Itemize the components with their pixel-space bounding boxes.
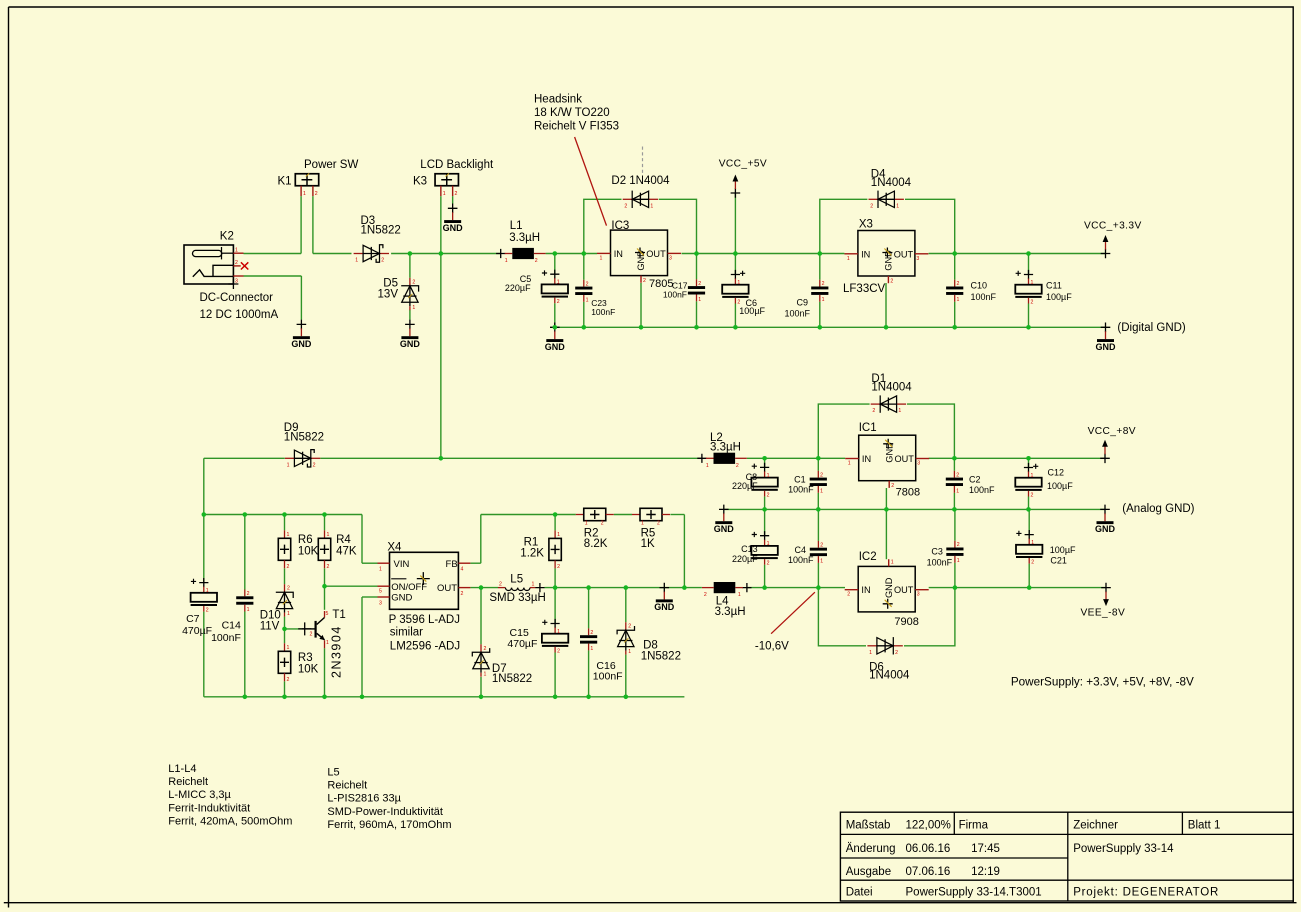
- label C14: [222, 620, 241, 632]
- wire C21 column: [1028, 509, 1030, 587]
- svg-text:OUT: OUT: [894, 585, 914, 595]
- svg-text:IC3: IC3: [611, 220, 629, 232]
- svg-text:2: 2: [643, 278, 646, 284]
- svg-text:Ferrit, 960mA, 170mOhm: Ferrit, 960mA, 170mOhm: [327, 819, 451, 831]
- no-connect X on K2 pin2: [241, 262, 248, 269]
- svg-text:D8: D8: [643, 640, 658, 652]
- svg-text:2: 2: [956, 472, 959, 478]
- Headsink annotation text: [534, 94, 619, 133]
- svg-text:2: 2: [820, 542, 823, 548]
- label D4: [871, 169, 886, 181]
- notes L5: [327, 767, 451, 831]
- wire C1 column: [817, 458, 819, 509]
- label R6: [298, 534, 313, 546]
- label L2 value: [710, 442, 741, 454]
- capacitor C8 220uF: [751, 463, 777, 499]
- label C12 value: [1047, 481, 1073, 491]
- svg-text:(Analog GND): (Analog GND): [1122, 503, 1194, 515]
- svg-text:2: 2: [313, 462, 316, 468]
- svg-text:Ferrit-Induktivität: Ferrit-Induktivität: [168, 802, 250, 814]
- title block row3 text: [846, 866, 1000, 878]
- wire R1 column: [554, 515, 556, 588]
- svg-text:2: 2: [484, 646, 487, 652]
- svg-text:GND: GND: [291, 339, 312, 349]
- svg-text:1N4004: 1N4004: [871, 382, 912, 394]
- svg-text:470µF: 470µF: [182, 625, 212, 637]
- wire R6 D10 R3 column: [284, 515, 286, 697]
- svg-text:1: 1: [484, 671, 487, 677]
- svg-text:3: 3: [235, 279, 238, 285]
- junction dots switcher top rail: [202, 512, 558, 517]
- label D9 value: [284, 431, 324, 443]
- wire L2 to IC1 IN: [747, 457, 845, 459]
- svg-text:47K: 47K: [336, 546, 357, 558]
- svg-text:GND: GND: [654, 602, 675, 612]
- svg-text:1: 1: [287, 645, 290, 651]
- svg-text:C13: C13: [741, 544, 758, 554]
- label C9: [796, 298, 808, 308]
- label C11 value: [1046, 292, 1072, 302]
- label D4 value: [871, 177, 912, 189]
- svg-text:IC2: IC2: [859, 551, 877, 563]
- wire C16 column: [588, 588, 590, 697]
- svg-text:1: 1: [956, 488, 959, 494]
- svg-text:1: 1: [820, 488, 823, 494]
- svg-text:SMD 33µH: SMD 33µH: [489, 592, 545, 604]
- svg-text:Reichelt: Reichelt: [168, 776, 208, 788]
- ground under K2 pin3: [291, 320, 312, 349]
- label R1 value: [520, 547, 544, 559]
- wire T1 emitter down: [324, 648, 326, 697]
- label C7: [186, 613, 200, 625]
- label C16 value: [593, 671, 623, 683]
- svg-text:100nF: 100nF: [211, 632, 241, 644]
- svg-text:Blatt 1: Blatt 1: [1188, 819, 1221, 831]
- title block row4 text: [846, 887, 1219, 899]
- svg-text:GND: GND: [545, 342, 566, 352]
- ground left end of analog bus: [714, 505, 735, 534]
- wire D8 column: [625, 588, 627, 697]
- label C8: [746, 472, 758, 482]
- label D3 value 1N5822: [361, 225, 401, 237]
- label R1: [524, 537, 539, 549]
- label R4: [336, 534, 351, 546]
- svg-text:2: 2: [461, 591, 464, 597]
- svg-text:C4: C4: [794, 545, 806, 555]
- svg-text:LF33CV: LF33CV: [843, 283, 886, 295]
- switcher bottom rail: [204, 696, 685, 698]
- notes L1-L4: [168, 763, 292, 827]
- svg-text:1: 1: [891, 559, 894, 565]
- svg-text:C14: C14: [222, 620, 241, 632]
- svg-text:SMD-Power-Induktivität: SMD-Power-Induktivität: [327, 806, 443, 818]
- diode D2 1N4004: [623, 191, 658, 210]
- svg-text:17:45: 17:45: [971, 843, 1000, 855]
- capacitor C1 100nF: [810, 471, 827, 495]
- capacitor C23 100nF: [575, 280, 592, 304]
- label C6 value: [739, 306, 765, 316]
- svg-text:Power SW: Power SW: [304, 159, 358, 171]
- ground under K3 pin2: [443, 204, 464, 233]
- label K3: [413, 175, 427, 187]
- label R5: [641, 528, 656, 540]
- transistor T1 2N3904: [298, 611, 329, 648]
- capacitor C2 100nF: [946, 471, 963, 495]
- svg-text:2N3904: 2N3904: [330, 625, 344, 678]
- junction dots output row: [479, 585, 1032, 590]
- svg-text:(Digital GND): (Digital GND): [1117, 322, 1186, 334]
- svg-text:100µF: 100µF: [1046, 292, 1072, 302]
- svg-text:2: 2: [704, 592, 707, 598]
- wire C7 column: [203, 515, 205, 697]
- connector K2 DC jack: [184, 245, 244, 289]
- svg-text:100nF: 100nF: [788, 485, 814, 495]
- svg-text:1: 1: [355, 258, 358, 264]
- svg-text:2: 2: [557, 649, 560, 655]
- svg-text:1: 1: [706, 463, 709, 469]
- label R5 value: [641, 538, 655, 550]
- svg-text:R6: R6: [298, 534, 313, 546]
- svg-text:10K: 10K: [298, 546, 319, 558]
- svg-text:2: 2: [315, 191, 318, 197]
- svg-text:5: 5: [326, 611, 329, 617]
- svg-text:Maßstab: Maßstab: [846, 819, 891, 831]
- schottky D8 1N5822: [617, 622, 634, 655]
- svg-text:3.3µH: 3.3µH: [715, 606, 746, 618]
- svg-text:VCC_+3.3V: VCC_+3.3V: [1084, 221, 1142, 232]
- label C4: [794, 545, 806, 555]
- svg-text:L5: L5: [327, 767, 339, 779]
- wire IC3 GND pin to bus: [640, 283, 642, 327]
- svg-text:1: 1: [412, 305, 415, 311]
- junction dots analog gnd bus: [762, 507, 1030, 512]
- svg-text:1: 1: [641, 521, 644, 527]
- label VCC_+8V: [1088, 426, 1136, 437]
- svg-text:2: 2: [957, 281, 960, 287]
- svg-text:IN: IN: [862, 454, 871, 464]
- svg-text:2: 2: [535, 258, 538, 264]
- svg-text:1: 1: [557, 532, 560, 538]
- svg-text:122,00%: 122,00%: [906, 819, 951, 831]
- X4 P3596 regulator box: [378, 552, 471, 609]
- svg-text:D2 1N4004: D2 1N4004: [611, 175, 670, 187]
- supply VCC_+8V: [1100, 440, 1110, 463]
- capacitor C13 220uF: [751, 531, 777, 567]
- svg-text:1: 1: [327, 532, 330, 538]
- connector K3 LCD backlight: [435, 173, 458, 196]
- schottky D7 1N5822: [472, 644, 489, 677]
- svg-text:C2: C2: [969, 475, 981, 485]
- label C2: [969, 475, 981, 485]
- svg-text:C7: C7: [186, 613, 200, 625]
- svg-text:X3: X3: [859, 219, 873, 231]
- svg-text:R4: R4: [336, 534, 351, 546]
- label C9 value: [784, 309, 810, 319]
- svg-text:100nF: 100nF: [971, 292, 997, 302]
- svg-text:1: 1: [698, 297, 701, 303]
- svg-text:4: 4: [461, 567, 464, 573]
- label R3: [298, 652, 313, 664]
- svg-text:2: 2: [628, 624, 631, 630]
- wire K3 pin2 to GND: [452, 196, 454, 204]
- digital ground terminal: [1096, 323, 1117, 352]
- svg-text:C1: C1: [794, 475, 806, 485]
- label X3: [859, 219, 873, 231]
- wire K2 pin1 to K1: [244, 196, 302, 253]
- label D7: [492, 663, 507, 675]
- label C15 value: [507, 638, 537, 650]
- svg-text:2: 2: [872, 408, 875, 414]
- label X4: [387, 542, 402, 554]
- wire K3 pin1 down to +8V row: [440, 196, 442, 458]
- svg-text:1: 1: [767, 473, 770, 479]
- label C17 value: [663, 290, 687, 300]
- wire C2 column: [953, 458, 955, 509]
- svg-text:L1-L4: L1-L4: [168, 763, 196, 775]
- svg-text:2: 2: [895, 650, 898, 656]
- svg-text:Zeichner: Zeichner: [1073, 819, 1118, 831]
- svg-text:L-PIS2816 33µ: L-PIS2816 33µ: [327, 793, 401, 805]
- label D5: [383, 278, 398, 290]
- svg-text:Firma: Firma: [959, 819, 989, 831]
- title block table: [840, 812, 1293, 901]
- label C1: [794, 475, 806, 485]
- title block row1 text: [846, 819, 1221, 831]
- svg-text:DC-Connector: DC-Connector: [200, 292, 274, 304]
- annotation leader line to IC3: [575, 137, 607, 226]
- label C13 value: [732, 554, 758, 564]
- label similar: [390, 627, 423, 639]
- label K1: [278, 175, 292, 187]
- label (Analog GND): [1122, 503, 1194, 515]
- svg-text:1: 1: [443, 191, 446, 197]
- label VCC_+3.3V: [1084, 221, 1142, 232]
- svg-text:L5: L5: [510, 574, 523, 586]
- resistor R2 8.2K: [576, 508, 614, 526]
- svg-text:1: 1: [738, 592, 741, 598]
- IC1 7808 regulator: [845, 435, 929, 489]
- svg-text:1N5822: 1N5822: [641, 651, 681, 663]
- svg-text:2: 2: [206, 608, 209, 614]
- capacitor C17 100nF: [688, 279, 705, 303]
- resistor R5 1K: [632, 508, 670, 526]
- label 2N3904 vertical: [330, 625, 344, 678]
- diode D4 1N4004: [869, 191, 904, 210]
- label C3 value: [927, 557, 953, 567]
- capacitor C12 100uF: [1015, 463, 1041, 499]
- svg-text:07.06.16: 07.06.16: [906, 866, 951, 878]
- capacitor C4 100nF: [810, 541, 827, 565]
- wire C13 column: [764, 509, 766, 587]
- svg-text:GND: GND: [884, 577, 894, 598]
- svg-text:7805: 7805: [649, 278, 673, 290]
- svg-text:7808: 7808: [896, 486, 920, 498]
- zener D5 13V: [401, 278, 418, 311]
- IC3 7805 regulator: [597, 230, 681, 284]
- svg-text:2: 2: [590, 630, 593, 636]
- capacitor C5 220uF: [542, 270, 568, 306]
- svg-text:C3: C3: [931, 547, 943, 557]
- svg-text:1: 1: [590, 646, 593, 652]
- svg-text:C10: C10: [971, 281, 988, 291]
- title block row2 text: [846, 843, 1174, 855]
- svg-text:2: 2: [957, 542, 960, 548]
- svg-text:1: 1: [650, 203, 653, 209]
- svg-text:2: 2: [847, 592, 850, 598]
- svg-text:2: 2: [891, 483, 894, 489]
- svg-text:Ausgabe: Ausgabe: [846, 866, 891, 878]
- svg-text:2: 2: [557, 299, 560, 305]
- label C11: [1046, 281, 1062, 291]
- wire C12 column: [1028, 458, 1030, 509]
- svg-text:1: 1: [206, 588, 209, 594]
- inductor L2 3.3uH: [697, 453, 747, 469]
- svg-text:2: 2: [657, 521, 660, 527]
- svg-text:GND: GND: [443, 223, 464, 233]
- label D6 value: [869, 670, 910, 682]
- svg-text:GND: GND: [391, 593, 412, 604]
- svg-text:Projekt: DEGENERATOR: Projekt: DEGENERATOR: [1073, 887, 1219, 899]
- svg-text:1.2K: 1.2K: [520, 547, 544, 559]
- svg-text:1: 1: [628, 649, 631, 655]
- svg-text:1: 1: [247, 607, 250, 613]
- svg-text:100nF: 100nF: [593, 671, 623, 683]
- label D9: [284, 422, 299, 434]
- svg-text:L1: L1: [510, 220, 523, 232]
- label 7805: [649, 278, 673, 290]
- svg-text:VCC_+8V: VCC_+8V: [1088, 426, 1136, 437]
- svg-text:2: 2: [737, 300, 740, 306]
- label D1: [871, 373, 886, 385]
- wire D6 bypass loop: [818, 588, 955, 646]
- svg-text:100nF: 100nF: [784, 309, 810, 319]
- svg-text:1N4004: 1N4004: [869, 670, 910, 682]
- wire K1 pin2 down to rail: [313, 196, 352, 253]
- wire IC1 GND pin to bus: [885, 488, 887, 509]
- svg-text:IC1: IC1: [859, 422, 877, 434]
- label C4 value: [788, 555, 814, 565]
- svg-text:T1: T1: [332, 609, 345, 621]
- svg-text:2: 2: [455, 191, 458, 197]
- label R6 value: [298, 546, 319, 558]
- connector K1 power switch: [295, 173, 318, 196]
- wire +8V row left of D9: [204, 457, 285, 459]
- svg-text:220µF: 220µF: [732, 481, 758, 491]
- svg-text:K1: K1: [278, 175, 292, 187]
- svg-text:GND: GND: [400, 339, 421, 349]
- svg-text:C11: C11: [1046, 281, 1062, 291]
- svg-text:2: 2: [624, 203, 627, 209]
- svg-text:1: 1: [737, 280, 740, 286]
- wire X4 OUT to L5: [470, 587, 498, 589]
- svg-text:2: 2: [287, 586, 290, 592]
- svg-text:2: 2: [870, 203, 873, 209]
- label D1 value: [871, 382, 912, 394]
- svg-text:1: 1: [287, 532, 290, 538]
- svg-text:C15: C15: [510, 627, 529, 639]
- label L4 value: [715, 606, 746, 618]
- wire C17 column: [696, 254, 698, 328]
- label LM2596 -ADJ: [390, 640, 460, 652]
- wire K2 pin3 to GND: [244, 276, 302, 320]
- label D3: [361, 215, 376, 227]
- supply VEE_-8V: [1101, 583, 1111, 606]
- label C14 value: [211, 632, 241, 644]
- label R2: [584, 528, 599, 540]
- svg-text:1: 1: [767, 541, 770, 547]
- wire C15 column: [554, 588, 556, 697]
- wire C5 column: [554, 254, 556, 328]
- ground under C5 on bus: [545, 323, 566, 352]
- svg-text:1: 1: [586, 297, 589, 303]
- label D7 value: [492, 673, 532, 685]
- label C8 value: [732, 481, 758, 491]
- junction dot T1 base: [282, 627, 287, 632]
- inductor L4 3.3uH: [702, 582, 752, 598]
- svg-text:2: 2: [601, 521, 604, 527]
- label K2: [220, 230, 234, 242]
- svg-text:ON/OFF: ON/OFF: [391, 582, 427, 593]
- svg-text:470µF: 470µF: [507, 638, 537, 650]
- label C21: [1050, 555, 1067, 565]
- svg-text:2: 2: [1031, 493, 1034, 499]
- svg-text:1: 1: [532, 582, 535, 588]
- svg-text:2: 2: [1031, 300, 1034, 306]
- inductor L5 SMD 33uH: [498, 582, 545, 593]
- label L1 value: [509, 232, 540, 244]
- label DC-Connector: [200, 292, 274, 304]
- svg-text:L-MICC 3,3µ: L-MICC 3,3µ: [168, 789, 231, 801]
- wire C14 column: [244, 515, 246, 697]
- capacitor C10 100nF: [946, 280, 963, 304]
- svg-text:12:19: 12:19: [971, 866, 1000, 878]
- svg-text:PowerSupply 33-14: PowerSupply 33-14: [1073, 843, 1174, 855]
- svg-text:2: 2: [327, 564, 330, 570]
- svg-text:3: 3: [917, 592, 920, 598]
- svg-text:1: 1: [869, 650, 872, 656]
- svg-text:VIN: VIN: [394, 559, 410, 570]
- wire X3 OUT to VCC_+3.3V: [929, 253, 1106, 255]
- wire IC2 OUT to VEE_-8V: [929, 587, 1106, 589]
- svg-text:OUT: OUT: [646, 249, 666, 259]
- svg-text:2: 2: [247, 591, 250, 597]
- wire D4 bypass loop: [820, 199, 955, 253]
- label C10: [971, 281, 988, 291]
- capacitor C9 100nF: [811, 280, 828, 304]
- svg-text:10K: 10K: [298, 663, 319, 675]
- wire VCC_+5V / C6 column: [734, 193, 736, 327]
- svg-text:18 K/W TO220: 18 K/W TO220: [534, 107, 610, 119]
- svg-text:220µF: 220µF: [732, 554, 758, 564]
- label C5: [520, 274, 532, 284]
- wire R4 T1 column: [325, 515, 378, 610]
- label (Digital GND): [1117, 322, 1186, 334]
- svg-text:GND: GND: [714, 524, 735, 534]
- svg-text:1: 1: [820, 558, 823, 564]
- label C10 value: [971, 292, 997, 302]
- svg-text:1N5822: 1N5822: [492, 673, 532, 685]
- label LCD Backlight: [420, 159, 494, 171]
- svg-text:1: 1: [557, 629, 560, 635]
- svg-text:1: 1: [287, 462, 290, 468]
- note PowerSupply outputs: [1011, 676, 1194, 689]
- svg-text:Reichelt: Reichelt: [327, 780, 367, 792]
- label T1: [332, 609, 345, 621]
- wire IC3 OUT to X3 IN: [682, 253, 845, 255]
- svg-text:2: 2: [767, 561, 770, 567]
- capacitor C3 100nF: [946, 541, 963, 565]
- svg-text:OUT: OUT: [437, 583, 457, 594]
